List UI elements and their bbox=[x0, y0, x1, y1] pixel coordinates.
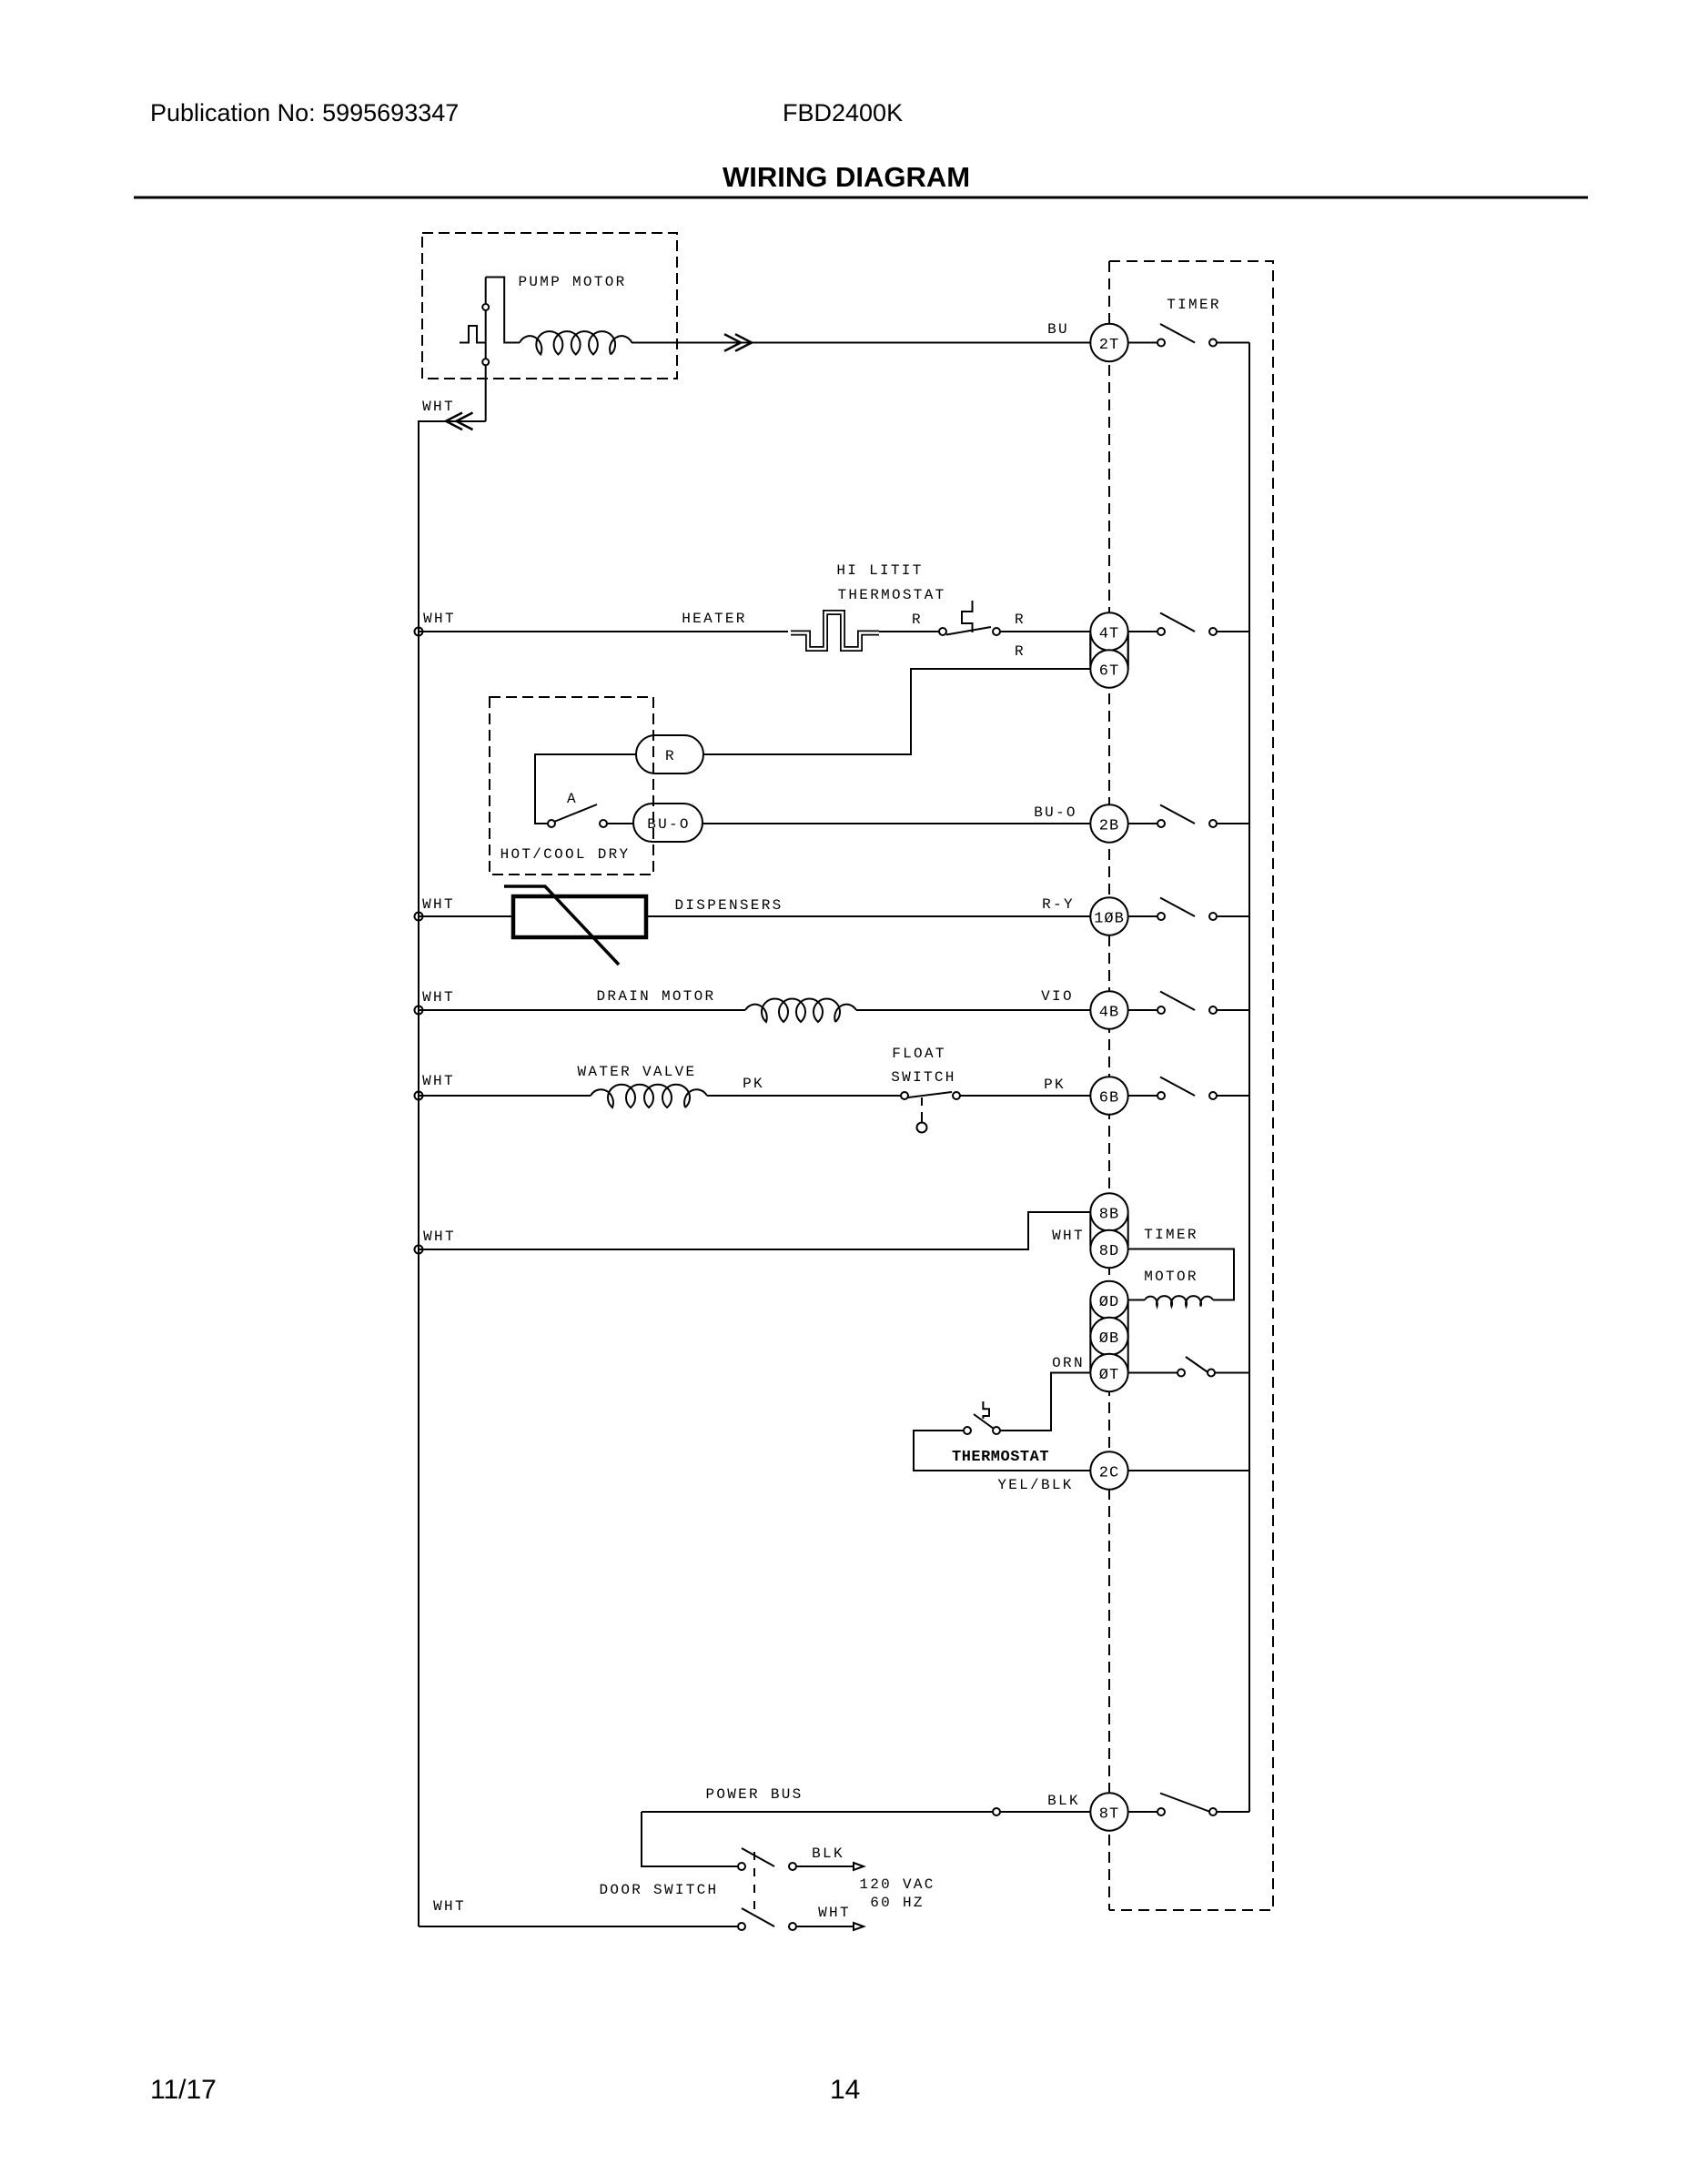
svg-text:PUMP MOTOR: PUMP MOTOR bbox=[518, 274, 626, 290]
svg-text:THERMOSTAT: THERMOSTAT bbox=[837, 587, 945, 603]
thermostat contact left bbox=[964, 1427, 971, 1434]
arrow WHT out bbox=[854, 1923, 864, 1930]
svg-text:FLOAT: FLOAT bbox=[892, 1046, 946, 1062]
wire 8D to timer motor bbox=[1128, 1249, 1234, 1300]
wire return chevrons left bbox=[446, 413, 473, 430]
switch 2T bbox=[1128, 324, 1249, 347]
svg-text:60 HZ: 60 HZ bbox=[870, 1895, 925, 1911]
svg-text:TIMER: TIMER bbox=[1167, 297, 1221, 313]
svg-text:HOT/COOL DRY: HOT/COOL DRY bbox=[500, 846, 631, 863]
svg-text:2T: 2T bbox=[1099, 337, 1119, 354]
svg-text:WHT: WHT bbox=[1052, 1228, 1085, 1244]
svg-text:2C: 2C bbox=[1099, 1465, 1119, 1482]
wire 0T to thermostat bbox=[1000, 1373, 1090, 1431]
wire water valve to float switch (PK) bbox=[707, 1095, 901, 1097]
svg-text:14: 14 bbox=[830, 2075, 860, 2105]
wire flow chevrons right bbox=[724, 334, 752, 351]
svg-text:2B: 2B bbox=[1099, 818, 1119, 835]
switch 2B bbox=[1128, 805, 1249, 828]
link 4T-6T bbox=[1090, 632, 1127, 669]
svg-text:R: R bbox=[1015, 643, 1026, 660]
node water valve bbox=[415, 1092, 423, 1100]
wire 2C to bus bbox=[1128, 1470, 1249, 1471]
svg-text:BLK: BLK bbox=[1047, 1793, 1080, 1809]
switch 10B bbox=[1128, 898, 1249, 921]
door switch upper contact left bbox=[738, 1863, 745, 1870]
heater element meander bbox=[791, 612, 879, 649]
wire pump to 2T (BU) bbox=[632, 342, 1090, 344]
svg-text:ORN: ORN bbox=[1052, 1355, 1085, 1371]
wire dispensers left bbox=[419, 915, 513, 917]
wire dispensers to 10B bbox=[646, 915, 1090, 917]
svg-text:R: R bbox=[912, 612, 923, 628]
header rule bbox=[134, 197, 1588, 199]
svg-text:YEL/BLK: YEL/BLK bbox=[997, 1477, 1073, 1493]
svg-text:R-Y: R-Y bbox=[1042, 896, 1075, 913]
svg-text:BU-O: BU-O bbox=[1034, 804, 1077, 821]
terminal 2C bbox=[1090, 1451, 1127, 1489]
terminal 2T bbox=[1090, 324, 1127, 361]
svg-text:WHT: WHT bbox=[422, 896, 455, 913]
float switch blade bbox=[908, 1092, 952, 1097]
timer enclosure (dashed) bbox=[1109, 261, 1273, 1910]
terminal 4B bbox=[1090, 991, 1127, 1028]
pump switch contact upper bbox=[482, 304, 489, 310]
wire switch to 4T (R) bbox=[1000, 631, 1090, 632]
terminal 10B bbox=[1090, 897, 1127, 935]
terminal 8B bbox=[1090, 1193, 1127, 1230]
selector switch contact right bbox=[600, 820, 607, 827]
svg-text:Publication No: 5995693347: Publication No: 5995693347 bbox=[150, 99, 459, 126]
link 0D-0B-0T bbox=[1090, 1301, 1127, 1371]
svg-text:R: R bbox=[665, 748, 676, 764]
wire heater to switch bbox=[879, 631, 939, 632]
svg-text:WHT: WHT bbox=[423, 611, 456, 627]
pump switch top link bbox=[486, 278, 520, 343]
hi-limit switch blade bbox=[946, 627, 991, 635]
terminal 8T bbox=[1090, 1793, 1127, 1830]
terminal 0B bbox=[1090, 1318, 1127, 1355]
wire door switch upper to arrow bbox=[796, 1865, 854, 1867]
node 8B line bbox=[415, 1246, 423, 1254]
selector switch blade bbox=[554, 804, 597, 822]
svg-text:6T: 6T bbox=[1099, 663, 1119, 681]
arrow BLK out bbox=[854, 1863, 864, 1870]
float bob bbox=[917, 1123, 927, 1133]
svg-text:POWER BUS: POWER BUS bbox=[705, 1786, 803, 1803]
wire power bus bbox=[642, 1811, 993, 1813]
wire thermostat to 2C bbox=[914, 1431, 1090, 1471]
power bus junction contact bbox=[993, 1808, 1000, 1815]
wire power bus drop bbox=[642, 1812, 738, 1866]
switch 4T bbox=[1128, 613, 1249, 636]
door switch upper blade bbox=[742, 1848, 774, 1866]
thermostat actuator bbox=[983, 1401, 989, 1419]
pump switch contact lower bbox=[482, 359, 489, 365]
wire junction to 8T bbox=[1000, 1811, 1090, 1813]
terminal 8D bbox=[1090, 1230, 1127, 1268]
svg-text:THERMOSTAT: THERMOSTAT bbox=[952, 1449, 1049, 1466]
svg-text:120 VAC: 120 VAC bbox=[859, 1876, 935, 1893]
svg-text:4B: 4B bbox=[1099, 1005, 1119, 1022]
water valve coil bbox=[591, 1085, 707, 1107]
svg-text:A: A bbox=[567, 791, 578, 807]
door switch lower contact left bbox=[738, 1923, 745, 1930]
connector oval BU-O bbox=[633, 804, 702, 842]
timer common bus vertical bbox=[1248, 343, 1250, 1813]
svg-text:6B: 6B bbox=[1099, 1090, 1119, 1107]
hi-limit actuator bbox=[962, 601, 973, 632]
svg-text:ØT: ØT bbox=[1099, 1367, 1119, 1384]
svg-text:8T: 8T bbox=[1099, 1806, 1119, 1824]
pump motor centrifugal switch line bbox=[485, 278, 487, 422]
terminal 0D bbox=[1090, 1281, 1127, 1319]
wire switch to BU-O oval bbox=[607, 823, 633, 824]
svg-text:WHT: WHT bbox=[433, 1898, 466, 1915]
thermostat blade bbox=[974, 1414, 994, 1429]
switch 6B bbox=[1128, 1077, 1249, 1100]
wire heater line bbox=[419, 631, 788, 632]
svg-text:PK: PK bbox=[1044, 1077, 1066, 1093]
node heater bbox=[415, 628, 423, 636]
svg-text:FBD2400K: FBD2400K bbox=[783, 99, 903, 126]
terminal 6B bbox=[1090, 1077, 1127, 1114]
hot/cool dry enclosure (dashed) bbox=[490, 697, 653, 875]
svg-text:SWITCH: SWITCH bbox=[891, 1069, 955, 1086]
svg-text:ØD: ØD bbox=[1099, 1294, 1119, 1311]
float switch contact left bbox=[901, 1092, 908, 1099]
float switch contact right bbox=[953, 1092, 960, 1099]
svg-text:11/17: 11/17 bbox=[150, 2075, 217, 2105]
svg-text:R: R bbox=[1015, 612, 1026, 628]
svg-text:WHT: WHT bbox=[423, 1228, 456, 1245]
dispensers strike diagonal bbox=[504, 886, 619, 965]
svg-text:WHT: WHT bbox=[422, 989, 455, 1006]
svg-text:WHT: WHT bbox=[422, 1073, 455, 1089]
door switch link (dashed) bbox=[753, 1852, 755, 1916]
svg-text:4T: 4T bbox=[1099, 626, 1119, 643]
svg-text:ØB: ØB bbox=[1099, 1330, 1119, 1348]
drain motor coil bbox=[745, 999, 856, 1022]
hi-limit switch contact right bbox=[993, 628, 1000, 635]
wire float to 6B (PK) bbox=[960, 1095, 1090, 1097]
switch 4B bbox=[1128, 992, 1249, 1015]
door switch upper contact right bbox=[789, 1863, 796, 1870]
wire 6T to R oval bbox=[703, 669, 1090, 754]
wire drain left bbox=[419, 1009, 745, 1011]
svg-text:PK: PK bbox=[743, 1076, 764, 1092]
svg-text:WIRING DIAGRAM: WIRING DIAGRAM bbox=[723, 161, 970, 193]
pump motor winding coil bbox=[520, 331, 632, 354]
switch 8T bbox=[1128, 1794, 1249, 1816]
svg-text:WATER VALVE: WATER VALVE bbox=[578, 1064, 697, 1080]
wire water left bbox=[419, 1095, 591, 1097]
svg-text:DRAIN MOTOR: DRAIN MOTOR bbox=[597, 988, 716, 1005]
wire left bus to 8B bbox=[419, 1212, 1090, 1249]
svg-text:BU: BU bbox=[1047, 321, 1069, 338]
link lines 4T-6T over bbox=[1090, 634, 1127, 666]
pump motor enclosure (dashed) bbox=[422, 233, 677, 379]
timer motor coil bbox=[1145, 1296, 1213, 1306]
pump motor start pulse bbox=[460, 326, 486, 343]
svg-text:BLK: BLK bbox=[812, 1845, 844, 1862]
svg-text:BU-O: BU-O bbox=[647, 816, 691, 833]
svg-text:DOOR SWITCH: DOOR SWITCH bbox=[600, 1882, 719, 1898]
svg-text:DISPENSERS: DISPENSERS bbox=[674, 897, 783, 914]
wire drain to 4B bbox=[856, 1009, 1090, 1011]
terminal 2B bbox=[1090, 804, 1127, 842]
hi-limit switch contact left bbox=[939, 628, 946, 635]
terminal 0T bbox=[1090, 1354, 1127, 1391]
svg-text:HI LITIT: HI LITIT bbox=[836, 562, 923, 579]
svg-text:8B: 8B bbox=[1099, 1207, 1119, 1224]
svg-text:MOTOR: MOTOR bbox=[1144, 1269, 1198, 1285]
svg-text:TIMER: TIMER bbox=[1144, 1227, 1198, 1243]
float stem bbox=[921, 1097, 923, 1122]
wire bottom WHT bbox=[419, 1926, 738, 1927]
wire door switch lower to arrow bbox=[796, 1926, 854, 1927]
terminal 4T bbox=[1090, 612, 1127, 650]
wire BU-O oval to 2B bbox=[702, 823, 1090, 824]
node drain motor bbox=[415, 1006, 423, 1015]
door switch lower blade bbox=[742, 1908, 774, 1926]
svg-text:WHT: WHT bbox=[422, 399, 455, 415]
switch 0T bbox=[1128, 1357, 1249, 1377]
svg-text:8D: 8D bbox=[1099, 1243, 1119, 1260]
thermostat contact right bbox=[993, 1427, 1000, 1434]
door switch lower contact right bbox=[789, 1923, 796, 1930]
svg-text:VIO: VIO bbox=[1041, 988, 1074, 1005]
terminal 6T bbox=[1090, 650, 1127, 687]
dispensers heater box bbox=[513, 896, 646, 937]
wire 0D to coil bbox=[1128, 1299, 1145, 1301]
wire pump return drop bbox=[419, 421, 486, 1926]
svg-text:1ØB: 1ØB bbox=[1094, 911, 1125, 928]
wire R oval to selector switch bbox=[535, 754, 636, 824]
svg-text:WHT: WHT bbox=[818, 1905, 851, 1921]
connector oval R bbox=[636, 735, 703, 773]
svg-text:HEATER: HEATER bbox=[682, 611, 746, 627]
selector switch contact left bbox=[548, 820, 555, 827]
link 8B-8D bbox=[1090, 1214, 1127, 1247]
node dispensers bbox=[415, 913, 423, 921]
